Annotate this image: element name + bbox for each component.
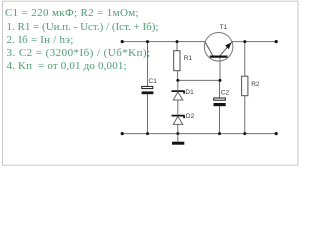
transistor T1 body circle (204, 33, 233, 62)
transistor T1 collector line (205, 42, 213, 56)
resistor R2 (242, 76, 248, 96)
wire: node to D1 (177, 80, 179, 90)
svg-text:C2: C2 (221, 90, 230, 97)
transistor T1 base bar (210, 55, 228, 57)
capacitor C1 top plate (142, 86, 153, 88)
border frame (decorative) (3, 1, 299, 165)
wire: C2 branch lower (219, 106, 221, 133)
zener diode D2 cathode bar (172, 116, 185, 119)
junction dot top C1 (146, 40, 149, 43)
capacitor C2 bottom plate (214, 103, 226, 106)
wire: D1 to D2 (177, 100, 179, 115)
transistor T1 emitter line (220, 42, 232, 56)
wire: R2 bottom lead (244, 96, 246, 134)
wire: R1 bottom lead to node (177, 71, 179, 81)
zener diode D1 cathode bar (172, 91, 185, 94)
transistor T1 emitter arrow (225, 43, 231, 50)
capacitor C2 top plate (214, 98, 226, 100)
wire: R1 top lead (176, 42, 178, 51)
junction dot bottom D2 (176, 132, 179, 135)
svg-text:D1: D1 (185, 89, 194, 96)
junction dot bottom C1 (146, 132, 149, 135)
wire: bottom rail (122, 133, 276, 135)
wire: top rail output segment (232, 41, 276, 43)
wire: D2 to bottom rail (177, 124, 179, 133)
svg-text:C1: C1 (149, 78, 158, 85)
junction dot bottom R2 (243, 132, 246, 135)
formula notes (5, 7, 139, 20)
svg-text:D2: D2 (186, 113, 195, 120)
capacitor C1 bottom plate (142, 91, 154, 94)
ground bar (172, 142, 184, 145)
input terminal top (121, 40, 124, 43)
output terminal bottom (275, 132, 278, 135)
svg-text:T1: T1 (220, 24, 228, 31)
zener diode D2 triangle (173, 116, 183, 124)
wire: base lead of T1 (219, 58, 221, 81)
resistor R1 (174, 51, 180, 71)
wire: R2 top lead (244, 42, 246, 77)
wire: top rail input segment (122, 41, 205, 43)
ground stub wire (177, 134, 179, 142)
svg-text:R2: R2 (251, 81, 260, 88)
svg-text:R1: R1 (184, 55, 193, 62)
junction dot bottom C2 (218, 132, 221, 135)
node dot R1-D1 (176, 79, 179, 82)
wire: C2 branch upper (219, 80, 221, 97)
junction dot top R1 (176, 40, 179, 43)
node dot base-C2 (219, 79, 222, 82)
wire: C1 branch upper (147, 42, 149, 87)
wire: C1 branch lower (147, 94, 149, 133)
output terminal top (275, 40, 278, 43)
input terminal bottom (121, 132, 124, 135)
junction dot top R2 (243, 40, 246, 43)
zener diode D1 triangle (173, 92, 183, 100)
wire: middle node rail (178, 79, 220, 81)
